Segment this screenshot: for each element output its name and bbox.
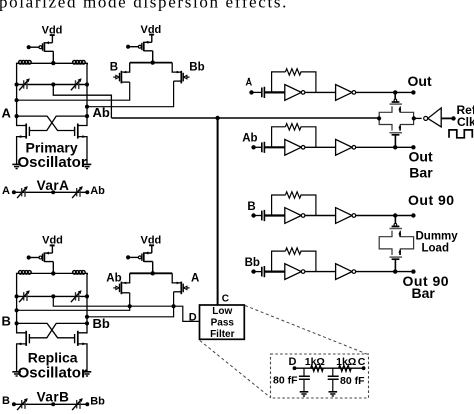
right tank rail wire [86, 63, 88, 116]
svg-text:Oscillator: Oscillator [17, 154, 86, 171]
node C dot (detail) [362, 366, 366, 370]
pmos switch Ab [113, 273, 129, 294]
nmos stem to Out Bar row [394, 135, 396, 148]
node D dot (detail) [293, 366, 297, 370]
ref clk inverter (points left) [424, 116, 428, 120]
svg-text:VarB: VarB [37, 390, 70, 405]
svg-text:Replica: Replica [28, 349, 78, 365]
node B dot on rail [15, 308, 19, 312]
ground (left, replica) [12, 372, 21, 376]
input A dot [249, 90, 253, 94]
svg-text:B: B [247, 201, 255, 213]
VarA wire [14, 191, 87, 193]
svg-text:Out 90: Out 90 [408, 192, 455, 208]
supply rail wire (replica) [17, 273, 88, 274]
svg-text:80 fF: 80 fF [273, 375, 298, 387]
nmos M7 (right of replica cross pair) [75, 323, 87, 371]
svg-text:Load: Load [422, 243, 449, 255]
node Ab dot on rail [85, 105, 89, 109]
junction dot control wire [215, 116, 219, 120]
svg-text:C: C [222, 294, 229, 305]
svg-text:Filter: Filter [210, 329, 235, 340]
square wave glyph [449, 130, 472, 138]
low pass filter box [200, 305, 245, 339]
detail wire D to C [295, 367, 364, 369]
buffer chain row A [251, 69, 415, 101]
svg-text:B: B [2, 313, 11, 328]
switch pair source rail [130, 62, 173, 64]
junction dot A-switch drain [172, 304, 176, 308]
ground (right, primary) [83, 164, 92, 168]
cross-coupling wire A to right gate [17, 116, 75, 130]
svg-text:Bb: Bb [189, 62, 204, 74]
svg-text:Out: Out [409, 149, 433, 165]
varactor C2 [71, 78, 82, 90]
node dots on varactor row (replica) [15, 294, 19, 298]
supply rail wire [17, 63, 88, 64]
left tank rail wire (replica) [16, 273, 18, 323]
svg-text:Ab: Ab [93, 105, 110, 120]
svg-text:D: D [189, 312, 197, 324]
svg-text:Bb: Bb [90, 395, 105, 407]
VarB wire [14, 403, 87, 405]
ref clk input wire [441, 117, 453, 119]
wire node Ab to switch Bb drain [87, 81, 174, 107]
svg-text:A: A [2, 185, 10, 197]
svg-text:Clk: Clk [457, 115, 474, 129]
svg-text:D: D [289, 356, 297, 368]
svg-text:Ab: Ab [106, 272, 121, 284]
inductor L3 [19, 271, 32, 275]
pmos switch B [113, 63, 129, 84]
dashed detail box [271, 354, 369, 398]
svg-text:Low: Low [212, 306, 232, 317]
svg-text:A: A [2, 106, 12, 121]
varactor C3 [19, 290, 30, 302]
pmos stem from Out row [394, 92, 396, 99]
wire node A to switch B drain [17, 82, 130, 100]
vertical wire to LPF node C [217, 118, 219, 305]
svg-text:Bar: Bar [412, 285, 436, 301]
cross-coupling wire Bb to left gate [29, 323, 87, 337]
resistor R1 [311, 365, 324, 371]
buffer chain row B [251, 192, 415, 224]
svg-text:Pass: Pass [211, 317, 235, 328]
capacitor Cf2 80fF [328, 368, 339, 391]
pmos current source M5 (replica oscillator) [27, 245, 56, 275]
svg-text:Ab: Ab [242, 133, 257, 145]
node A dot on rail [15, 98, 19, 102]
cross-coupling wire Ab to left gate [29, 116, 87, 130]
pass gate (sampler) [379, 99, 413, 135]
input B dot [251, 213, 255, 217]
svg-text:Oscillator: Oscillator [18, 365, 87, 382]
control node wire (varactor mid to long wire) [53, 85, 111, 119]
varactor row wire (replica) [17, 295, 87, 297]
varactor VarA right [72, 186, 83, 198]
nmos M6 (left of replica cross pair) [17, 323, 30, 371]
node B dot [15, 321, 19, 325]
wire node Bb to switch A drain [87, 292, 174, 317]
input Bb dot [251, 269, 255, 273]
varactor VarB right [72, 398, 83, 410]
cross-coupling wire B to right gate [17, 323, 75, 337]
dashed callout line bottom [200, 341, 271, 398]
dummy pmos stem [394, 216, 396, 224]
dummy nmos stem [394, 259, 396, 271]
pmos switch Bb [172, 63, 189, 84]
varactor VarA left [17, 186, 28, 198]
varactor VarB left [17, 398, 28, 410]
buffer chain row Bb [251, 248, 415, 280]
switch pair source rail (replica) [130, 272, 173, 274]
varactor row wire [17, 84, 87, 86]
inductor L2 [73, 61, 86, 65]
ground (right, replica) [83, 372, 92, 376]
svg-text:Out: Out [408, 73, 432, 89]
node Bb dot [85, 321, 89, 325]
svg-text:Bb: Bb [245, 257, 260, 269]
pmos current source M4 (primary switch pair) [126, 35, 155, 65]
svg-text:80 fF: 80 fF [340, 375, 365, 387]
input Ab dot [251, 145, 255, 149]
control node wire to LPF input D [53, 296, 200, 321]
varactor C4 [71, 290, 82, 302]
svg-text:B: B [110, 62, 118, 74]
svg-text:Bb: Bb [93, 316, 110, 331]
svg-text:Bar: Bar [409, 165, 433, 181]
inductor L4 [73, 271, 86, 275]
node dots on varactor row [15, 82, 19, 86]
svg-text:Dummy: Dummy [416, 231, 459, 243]
pmos switch A [172, 273, 189, 294]
ground (left, primary) [12, 164, 21, 168]
dashed callout line top [245, 306, 368, 355]
node Bb dot on rail [85, 315, 89, 319]
nmos M3 (right of cross pair) [75, 116, 87, 164]
ground (Cf1) [300, 392, 309, 396]
nmos M2 (left of cross pair) [17, 116, 30, 164]
wire node B to switch Ab drain [17, 293, 130, 311]
long control wire C [111, 117, 379, 119]
capacitor Cf1 80fF [299, 368, 310, 391]
dummy load pass gate [379, 223, 413, 259]
svg-text:Ab: Ab [90, 185, 105, 197]
ground (Cf2) [329, 392, 338, 396]
svg-text:A: A [191, 272, 199, 284]
resistor R2 [339, 365, 352, 371]
node Ab dot [85, 114, 89, 118]
svg-text:B: B [2, 395, 10, 407]
node dots VarA [12, 190, 16, 194]
pmos current source M8 (replica switch pair) [126, 245, 155, 275]
right tank rail wire (replica) [86, 273, 88, 323]
inductor L1 [19, 61, 32, 65]
node dots VarB [12, 402, 16, 406]
svg-text:C: C [358, 356, 366, 368]
right terminal wire and dot [414, 117, 422, 119]
svg-text:1kΩ: 1kΩ [305, 356, 325, 368]
buffer chain row Ab [251, 124, 415, 156]
junction dot Ab-switch drain [128, 304, 132, 308]
left terminal wire and dot [377, 116, 381, 120]
varactor C1 [19, 78, 30, 90]
pmos current source M1 (primary oscillator) [27, 35, 56, 65]
node A dot [15, 114, 19, 118]
svg-text:polarized mode dispersion effe: polarized mode dispersion effects. [0, 0, 288, 12]
left tank rail wire [16, 63, 18, 116]
